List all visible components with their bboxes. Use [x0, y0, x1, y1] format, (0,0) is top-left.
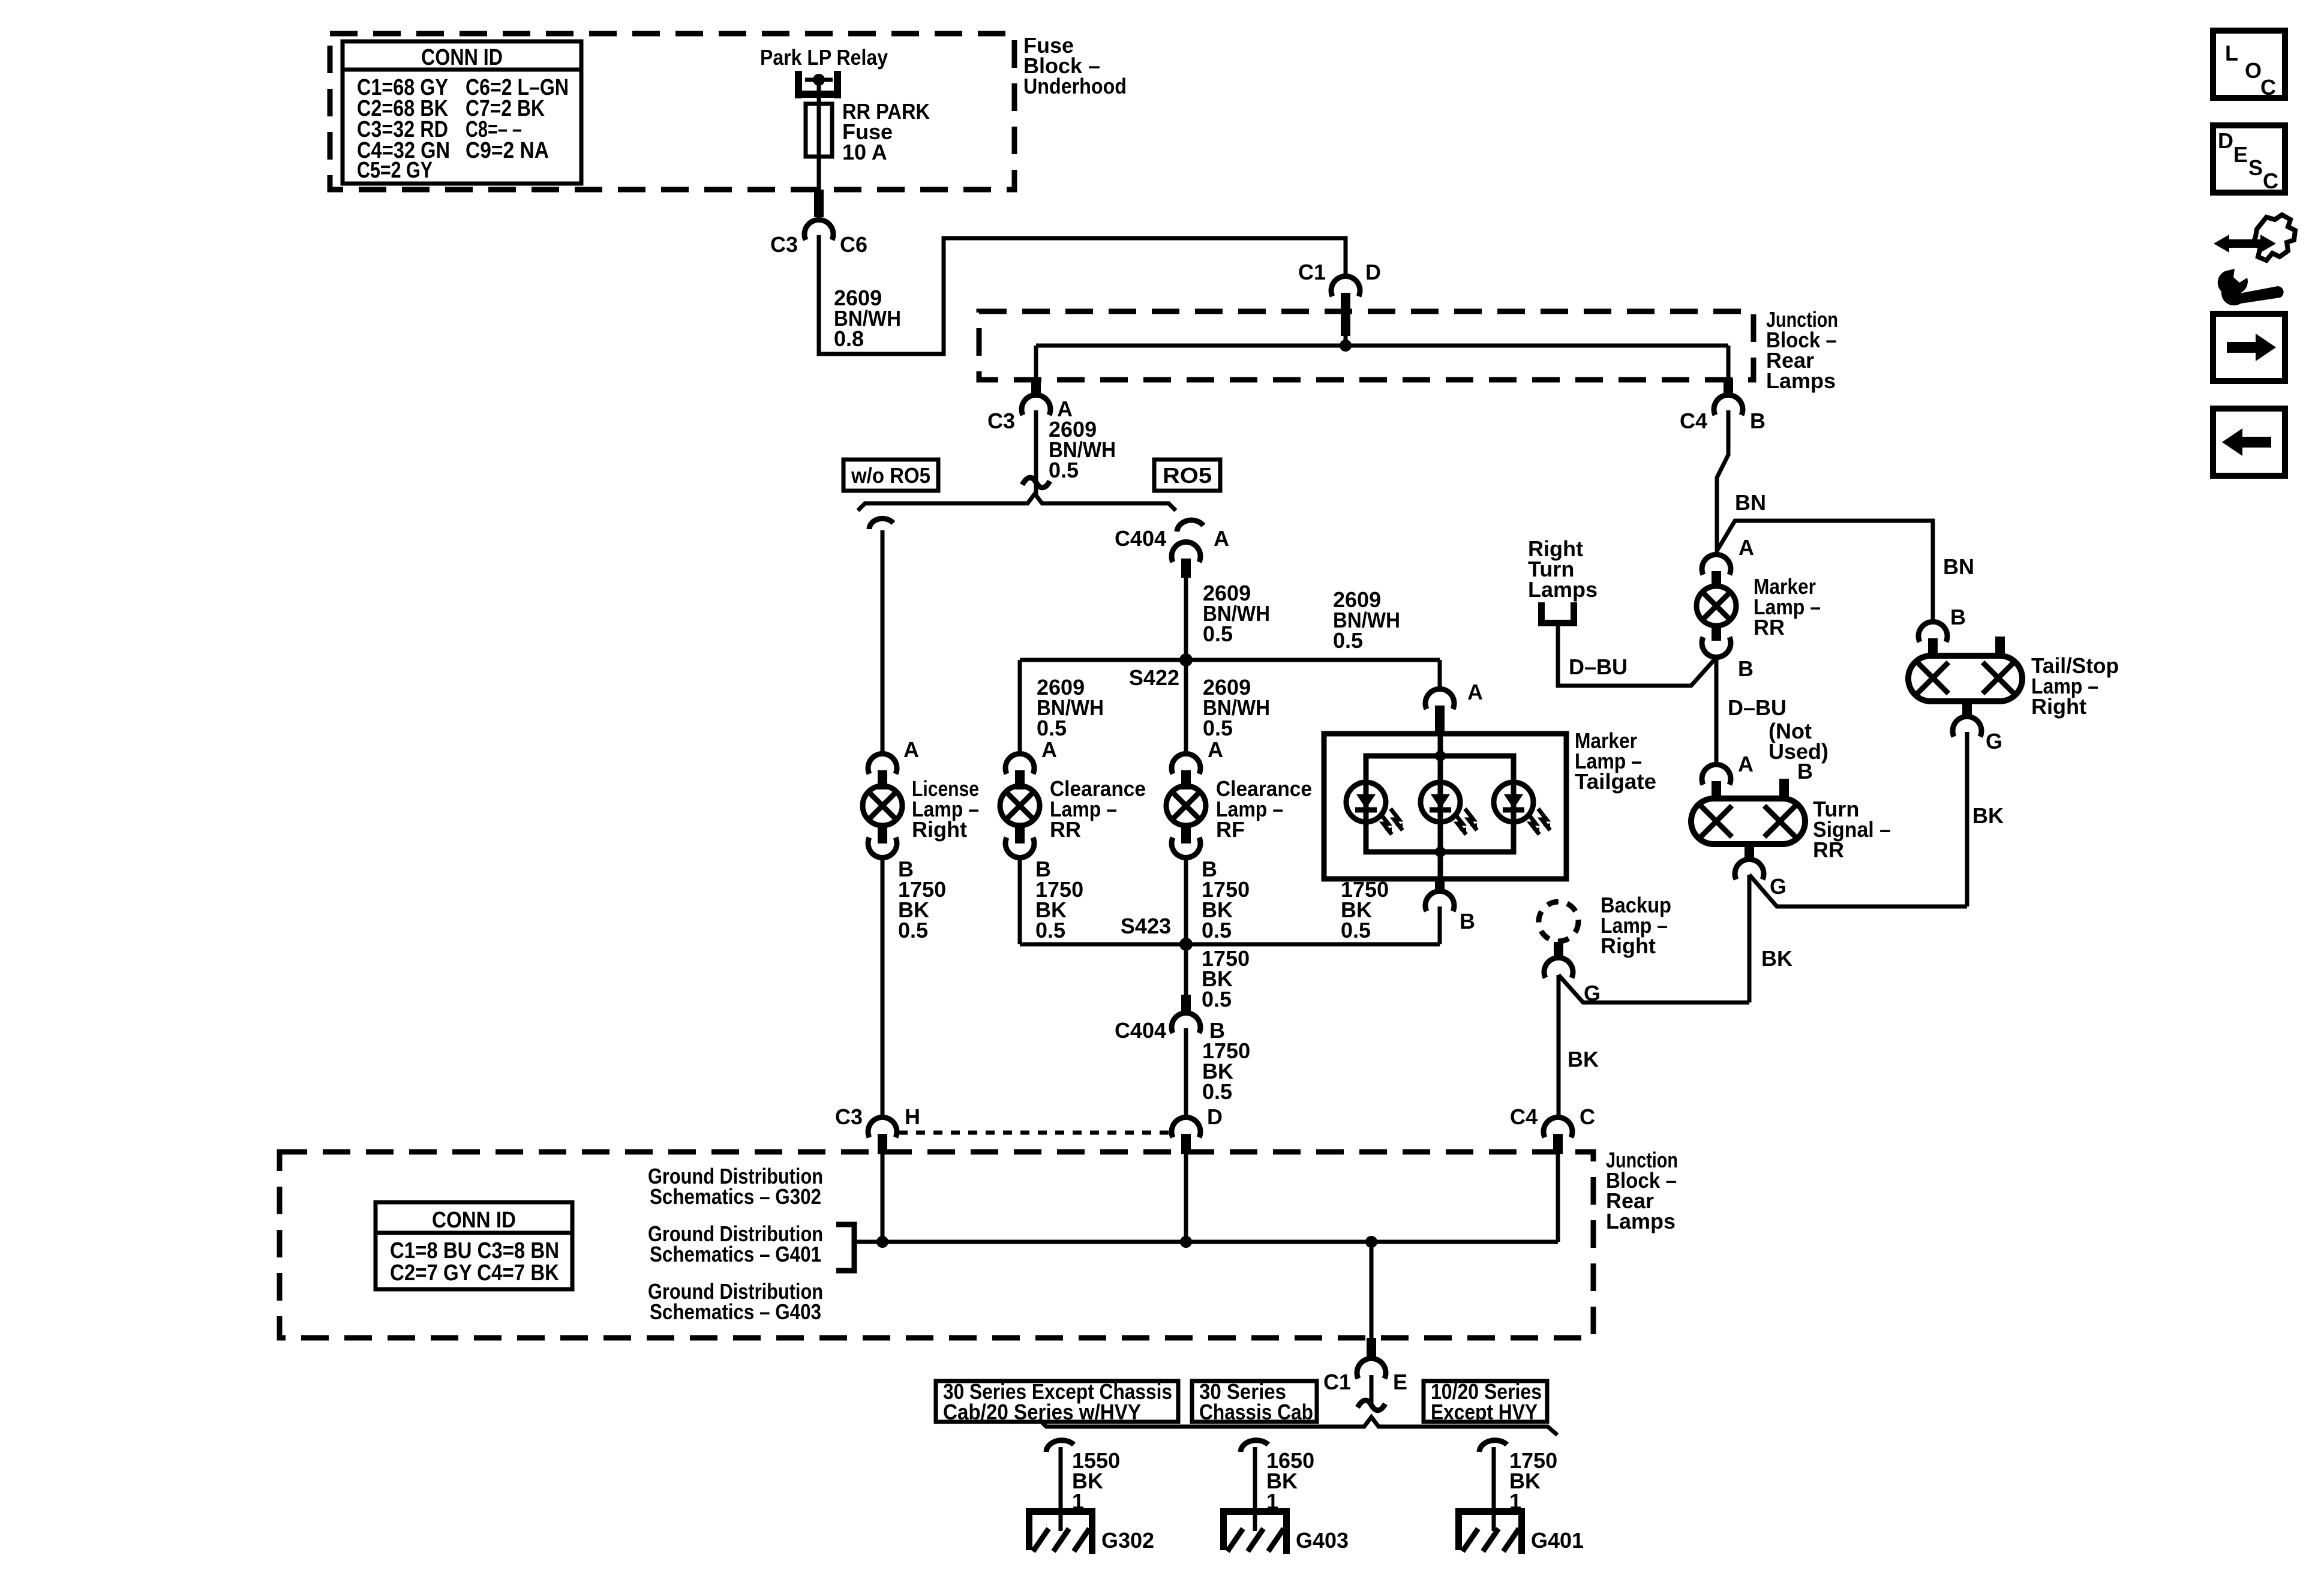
icon DESC button — [2213, 125, 2285, 193]
wire label 2609 BN/WH 0.5 (RR branch) — [1037, 675, 1104, 740]
icon back arrow button — [2213, 409, 2285, 476]
svg-text:0.8: 0.8 — [834, 326, 864, 351]
svg-text:0.5: 0.5 — [1202, 918, 1232, 942]
connector C404/B stub — [1181, 995, 1191, 1015]
wire 1750 BK 0.5 from C404/B to junction block D — [1184, 1028, 1188, 1118]
wire 1650 BK 1 to G403 — [1253, 1447, 1257, 1531]
wire S422 down to clearance lamp RF — [1184, 660, 1188, 755]
wire BN from C4/B to marker lamp RR — [1717, 410, 1728, 556]
wire 1750 BK 0.5 license lamp to C3/H — [881, 857, 885, 1118]
connector C3/C6 stub — [814, 190, 824, 217]
connector C1/D stub — [1341, 293, 1350, 336]
tail/stop lamp body — [1908, 656, 2022, 701]
branch hook G403 — [1241, 1440, 1268, 1452]
svg-text:0.5: 0.5 — [1037, 716, 1067, 740]
svg-text:C6: C6 — [840, 232, 867, 257]
connector A stub into tailgate lamp — [1435, 706, 1445, 736]
tail/stop X filaments — [1917, 662, 2014, 694]
wire BK backup lamp to C4/C — [1557, 975, 1561, 1118]
svg-text:RO5: RO5 — [1163, 463, 1212, 488]
svg-text:C404: C404 — [1115, 1018, 1166, 1043]
connector C3/A stub — [1031, 379, 1041, 398]
svg-text:BN: BN — [1735, 490, 1766, 515]
svg-text:D–BU: D–BU — [1728, 695, 1786, 720]
svg-text:G401: G401 — [1531, 1528, 1584, 1553]
svg-text:C4: C4 — [1510, 1104, 1538, 1129]
svg-text:C1: C1 — [1323, 1370, 1351, 1394]
w/o RO5 option box — [843, 460, 938, 491]
svg-text:0.5: 0.5 — [1333, 628, 1363, 653]
option box 30 series chassis cab — [1192, 1379, 1317, 1424]
svg-text:Tailgate: Tailgate — [1575, 769, 1656, 794]
connector C4/B stub — [1724, 379, 1733, 398]
lamp Clearance Lamp - RR — [1000, 737, 1146, 881]
connector C3/C6 — [770, 220, 867, 257]
tailgate connector B — [1425, 891, 1475, 933]
wire backup G to turn signal BK wire — [1559, 975, 1749, 1002]
ground G302 — [1026, 1508, 1154, 1554]
svg-text:Right: Right — [1601, 933, 1656, 958]
svg-text:C3: C3 — [770, 232, 798, 257]
svg-text:D: D — [1365, 260, 1381, 284]
tailgate internal center wire — [1438, 734, 1443, 879]
wire D-BU right turn lamps to marker lamp B — [1558, 626, 1716, 686]
option break tilde — [1022, 478, 1050, 488]
lamp Tail/Stop Lamp - Right connector B — [1918, 605, 1966, 642]
wire 1750 BK 1 to G401 — [1492, 1447, 1496, 1531]
svg-text:RR: RR — [1050, 817, 1081, 842]
svg-text:G403: G403 — [1296, 1528, 1349, 1553]
dotted connector link C3/H to C404/D — [899, 1131, 1170, 1135]
LED 1 — [1346, 782, 1403, 834]
svg-text:Schematics – G401: Schematics – G401 — [650, 1242, 821, 1266]
svg-text:G302: G302 — [1101, 1528, 1154, 1553]
wire 1750 BK 0.5 clearance RR to S423 — [1018, 857, 1022, 944]
svg-text:Right: Right — [2031, 694, 2086, 719]
wire 2609 BN/WH 0.8 from fuse block to C1/D — [819, 235, 1346, 354]
wire C4/C to ground bus — [1556, 1153, 1560, 1242]
connector C1/E stub — [1367, 1338, 1376, 1359]
junction block rear lamps dashed box (bottom) — [280, 1152, 1593, 1338]
svg-text:BK: BK — [1972, 803, 2004, 828]
wire from relay through fuse — [817, 80, 821, 190]
svg-text:S422: S422 — [1129, 665, 1179, 690]
ground G401 — [1455, 1508, 1584, 1554]
svg-text:Underhood: Underhood — [1023, 74, 1127, 98]
marker lamp tailgate label — [1575, 728, 1656, 794]
svg-text:Right: Right — [912, 817, 967, 842]
wire S422 down to clearance lamp RR — [1018, 660, 1022, 755]
svg-text:CONN ID: CONN ID — [421, 45, 503, 70]
svg-text:S423: S423 — [1121, 914, 1171, 938]
turn signal connector G — [1744, 844, 1754, 862]
svg-text:C5=2 GY: C5=2 GY — [357, 158, 433, 183]
icon LOC button — [2213, 31, 2285, 100]
svg-text:D: D — [2218, 128, 2233, 153]
lamp License Lamp - Right — [863, 737, 979, 881]
S422 bus wire — [1020, 658, 1440, 662]
option brace for series variants — [1039, 1417, 1557, 1435]
RO5 option box — [1154, 460, 1220, 491]
tailgate internal bus rectangle — [1366, 756, 1514, 852]
svg-text:0.5: 0.5 — [1203, 622, 1233, 646]
svg-text:H: H — [905, 1104, 920, 1129]
tail/stop label — [2031, 653, 2119, 719]
svg-text:C9=2 NA: C9=2 NA — [466, 138, 549, 163]
connector C404/A curl — [1177, 520, 1203, 532]
ground G403 — [1220, 1508, 1349, 1554]
connector C404/B — [1115, 1013, 1225, 1043]
svg-text:0.5: 0.5 — [1035, 918, 1065, 942]
wire turn signal G to tail/stop G — [1749, 875, 1967, 906]
wire ground bus down to C1/E — [1370, 1242, 1374, 1339]
svg-text:C: C — [1580, 1104, 1595, 1129]
wire label 2609 BN/WH 0.5 — [1049, 417, 1116, 482]
CONN ID table (fuse block) — [343, 41, 581, 184]
svg-text:C1: C1 — [1298, 260, 1326, 284]
svg-text:w/o RO5: w/o RO5 — [851, 463, 930, 488]
wire 2609 BN/WH 0.5 from C404 to S422 — [1184, 577, 1188, 660]
wire label 1750 BK 0.5 (tailgate ground branch) — [1341, 877, 1389, 942]
CONN ID table (junction block) — [376, 1202, 572, 1289]
branch hook G302 — [1046, 1440, 1074, 1452]
svg-text:10 A: 10 A — [842, 140, 887, 164]
wire D-BU marker lamp B to turn signal A — [1715, 656, 1719, 767]
svg-text:Schematics – G302: Schematics – G302 — [650, 1184, 821, 1209]
junction block rear lamps dashed box (top) — [979, 311, 1753, 380]
tail/stop pin (unused top right) — [1995, 637, 2005, 656]
wire label 2609 BN/WH 0.5 (RF branch) — [1203, 675, 1270, 740]
right turn lamps bracket — [1528, 536, 1598, 626]
svg-text:B: B — [1738, 656, 1753, 681]
wire BK tail/stop G down — [1965, 732, 1969, 906]
svg-text:Except HVY: Except HVY — [1431, 1400, 1538, 1424]
connector C4/C stub — [1553, 1134, 1563, 1154]
LED 2 — [1421, 782, 1477, 834]
wire 1750 BK 0.5 clearance RF to S423 — [1184, 857, 1188, 944]
wire 2609 BN/WH 0.5 from C3/A to option brace — [1034, 410, 1038, 496]
splice S422 — [1179, 653, 1193, 667]
svg-text:Park LP Relay: Park LP Relay — [760, 45, 888, 70]
svg-text:C404: C404 — [1115, 526, 1166, 551]
tailgate internal junction dots — [1435, 751, 1446, 761]
junction node at C1/D — [1340, 340, 1352, 352]
svg-text:S: S — [2248, 155, 2263, 180]
connector C3/H stub — [878, 1134, 887, 1154]
svg-text:C3: C3 — [835, 1104, 863, 1129]
S423 bus wire — [1020, 942, 1440, 947]
svg-text:BK: BK — [1568, 1047, 1599, 1071]
icon next arrow button — [2213, 314, 2285, 381]
connector C404/A stub — [1181, 559, 1191, 578]
connector C1/D — [1298, 260, 1381, 296]
option break tilde below C1/E — [1358, 1400, 1385, 1410]
connector C4/B — [1680, 395, 1765, 433]
wire label 2609 BN/WH 0.5 (tailgate branch) — [1333, 587, 1400, 653]
svg-text:Lamps: Lamps — [1528, 577, 1598, 602]
svg-text:CONN ID: CONN ID — [432, 1208, 516, 1233]
left option curl — [869, 518, 893, 529]
svg-text:C3: C3 — [987, 409, 1015, 433]
svg-text:B: B — [1950, 605, 1966, 629]
wire label 2609 BN/WH 0.5 — [1203, 581, 1270, 646]
junction node (clearance ground) — [1180, 1236, 1192, 1248]
svg-text:B: B — [1750, 409, 1765, 433]
svg-text:RR: RR — [1753, 615, 1785, 640]
G401 bracket — [836, 1224, 854, 1271]
svg-text:L: L — [2225, 41, 2238, 65]
svg-text:D: D — [1207, 1104, 1223, 1129]
connector C404/A — [1115, 526, 1229, 562]
svg-text:0.5: 0.5 — [1202, 1079, 1232, 1104]
svg-text:B: B — [1460, 909, 1475, 933]
connector C3/A — [987, 395, 1073, 433]
connector C1/E — [1323, 1358, 1407, 1394]
wire S423 down to C404/B — [1184, 944, 1188, 996]
svg-text:E: E — [1393, 1370, 1407, 1394]
connector C404/D stub — [1181, 1134, 1191, 1154]
junction block internal bus wire — [1036, 344, 1728, 348]
junction block bottom label — [1606, 1148, 1678, 1233]
fuse block label — [1023, 33, 1127, 98]
ground distribution G302 label — [648, 1164, 823, 1209]
branch hook G401 — [1479, 1440, 1507, 1452]
connector C4/C — [1510, 1104, 1595, 1137]
lamp Marker Lamp - RR — [1697, 535, 1821, 681]
wire bus to C3/A — [1034, 346, 1038, 380]
svg-text:Chassis Cab: Chassis Cab — [1199, 1400, 1313, 1424]
svg-text:O: O — [2245, 58, 2262, 83]
wire BK turn signal G down — [1747, 875, 1752, 1002]
connector C404/D — [1172, 1104, 1223, 1137]
fuse block underhood dashed box — [330, 34, 1014, 190]
wire tailgate B to S423 — [1438, 906, 1442, 944]
junction node (C1/E drop) — [1365, 1236, 1377, 1248]
turn signal RR connector A — [1702, 752, 1753, 785]
svg-text:C2=7 GY C4=7 BK: C2=7 GY C4=7 BK — [390, 1260, 559, 1286]
marker lamp tailgate connector A — [1425, 680, 1483, 709]
svg-text:0.5: 0.5 — [898, 918, 928, 942]
tail/stop connector G — [1962, 701, 1972, 719]
option box 10/20 series except HVY — [1424, 1379, 1547, 1424]
svg-text:A: A — [903, 737, 919, 762]
svg-text:C1=8 BU C3=8 BN: C1=8 BU C3=8 BN — [390, 1238, 559, 1263]
wire BN branch to tail/stop lamp — [1716, 521, 1933, 624]
wire C404/D to ground bus — [1184, 1153, 1188, 1242]
svg-text:A: A — [1208, 737, 1223, 762]
svg-text:C4: C4 — [1680, 409, 1707, 433]
junction node (license ground) — [876, 1236, 888, 1248]
svg-text:0.5: 0.5 — [1203, 716, 1233, 740]
LED 3 — [1494, 782, 1550, 834]
svg-text:A: A — [1467, 680, 1483, 704]
svg-text:RF: RF — [1216, 817, 1245, 842]
wire 1550 BK 1 to G302 — [1059, 1447, 1063, 1531]
svg-text:RR: RR — [1813, 837, 1844, 862]
wire C3/H to ground bus — [881, 1153, 885, 1242]
connector C3/H — [835, 1104, 920, 1137]
ground bus wire in junction block — [854, 1240, 1558, 1244]
option box 30 series except chassis cab — [936, 1379, 1178, 1424]
turn signal label — [1813, 797, 1891, 862]
Park LP relay terminal symbol — [795, 71, 841, 98]
svg-text:C: C — [2260, 75, 2276, 100]
svg-text:G: G — [1770, 874, 1786, 899]
tailgate connector B stub — [1435, 879, 1445, 893]
svg-text:BK: BK — [1761, 946, 1792, 971]
svg-text:A: A — [1739, 535, 1754, 560]
ground distribution G403 label — [648, 1279, 823, 1324]
option brace w/o RO5 vs RO5 — [858, 494, 1176, 511]
marker lamp tailgate box — [1324, 734, 1566, 879]
ground distribution G401 label — [648, 1221, 823, 1266]
wire stub to junction bus — [1344, 335, 1348, 346]
svg-text:0.5: 0.5 — [1341, 918, 1371, 942]
svg-text:G: G — [1986, 729, 2002, 754]
svg-text:B: B — [1797, 759, 1813, 784]
svg-text:A: A — [1214, 526, 1229, 551]
icon wrench/arrow (connector view) — [2214, 215, 2295, 305]
wire w/o RO5 branch down to license lamp — [881, 530, 885, 755]
lamp Clearance Lamp - RF — [1166, 737, 1312, 881]
turn signal pin B (not used) — [1779, 779, 1789, 798]
svg-text:0.5: 0.5 — [1049, 458, 1079, 482]
turn signal X filaments — [1701, 806, 1795, 837]
svg-text:BN: BN — [1943, 554, 1974, 579]
svg-text:Lamps: Lamps — [1606, 1209, 1676, 1233]
svg-text:D–BU: D–BU — [1569, 655, 1628, 679]
svg-text:A: A — [1738, 752, 1753, 776]
wire bus to C4/B — [1727, 346, 1731, 380]
svg-text:E: E — [2233, 142, 2248, 167]
turn signal RR lamp body — [1691, 798, 1805, 844]
junction block top label — [1766, 307, 1838, 393]
svg-text:Schematics – G403: Schematics – G403 — [650, 1299, 821, 1324]
lamp Backup Lamp - Right (dashed) — [1539, 893, 1671, 1005]
svg-text:A: A — [1041, 737, 1057, 762]
svg-text:C: C — [2263, 169, 2278, 193]
svg-text:Lamps: Lamps — [1766, 368, 1836, 393]
svg-text:0.5: 0.5 — [1202, 987, 1232, 1011]
splice S423 — [1179, 938, 1193, 951]
RR PARK fuse 10A — [806, 104, 832, 157]
wire label 2609 BN/WH 0.8 — [834, 286, 901, 351]
svg-text:Cab/20 Series w/HVY: Cab/20 Series w/HVY — [943, 1400, 1141, 1424]
wire S422 right to tailgate marker lamp — [1438, 660, 1442, 690]
